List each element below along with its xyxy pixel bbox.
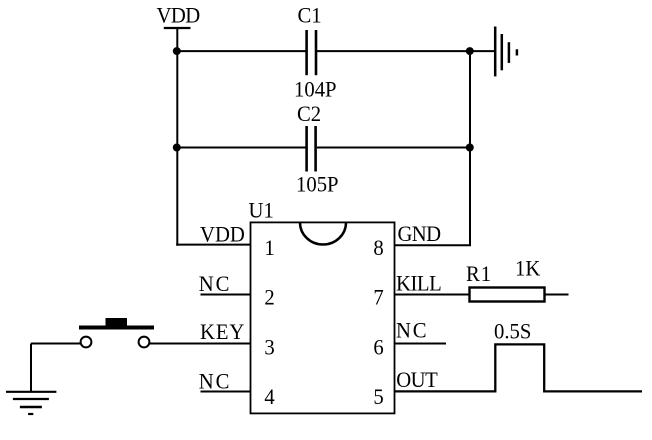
svg-text:OUT: OUT	[396, 367, 437, 392]
svg-text:1: 1	[264, 235, 274, 260]
svg-text:104P: 104P	[294, 77, 337, 102]
svg-text:6: 6	[373, 335, 384, 360]
svg-text:NC: NC	[199, 369, 231, 394]
svg-text:R1: R1	[466, 261, 492, 286]
svg-text:KEY: KEY	[200, 319, 245, 344]
svg-text:3: 3	[264, 335, 274, 360]
svg-text:C2: C2	[297, 101, 321, 126]
svg-text:4: 4	[264, 384, 275, 409]
svg-text:NC: NC	[396, 318, 428, 343]
svg-text:2: 2	[264, 285, 274, 310]
svg-text:VDD: VDD	[200, 222, 245, 247]
svg-text:105P: 105P	[296, 172, 339, 197]
svg-text:7: 7	[373, 285, 384, 310]
svg-text:VDD: VDD	[157, 3, 200, 28]
svg-text:U1: U1	[249, 198, 274, 223]
svg-text:KILL: KILL	[396, 271, 441, 296]
svg-text:GND: GND	[398, 221, 441, 246]
svg-text:1K: 1K	[515, 256, 541, 281]
svg-text:5: 5	[373, 384, 383, 409]
svg-text:0.5S: 0.5S	[494, 319, 531, 344]
svg-text:C1: C1	[298, 3, 322, 28]
svg-text:8: 8	[373, 235, 383, 260]
svg-text:NC: NC	[199, 271, 231, 296]
